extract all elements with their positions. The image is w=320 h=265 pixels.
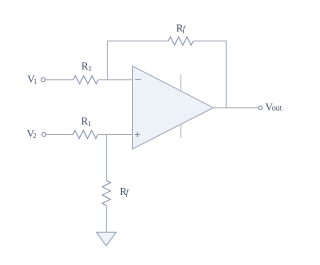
wire Rf to output branch — [193, 41, 226, 108]
op-amp minus sign — [135, 79, 141, 81]
op-amp positive supply pin — [180, 74, 182, 90]
svg-text:1: 1 — [34, 78, 38, 86]
wire op-amp output — [213, 107, 258, 109]
svg-text:2: 2 — [33, 132, 37, 140]
op-amp U1 body — [133, 66, 214, 149]
node V1 terminal circle — [41, 78, 45, 82]
wire node B down to Rf — [105, 135, 107, 181]
wire feedback tap up from node A — [107, 41, 168, 80]
op-amp negative supply pin — [180, 124, 182, 138]
wire Rf to ground — [105, 206, 107, 233]
svg-text:out: out — [272, 103, 283, 112]
resistor Rf (feedback) — [168, 37, 193, 45]
wire R1 to inverting input — [98, 79, 132, 81]
resistor R1 (top) — [73, 76, 98, 84]
node Vout terminal circle — [259, 106, 263, 110]
resistor Rf (to ground) — [102, 181, 110, 206]
svg-text:1: 1 — [88, 120, 92, 128]
op-amp plus sign — [135, 132, 140, 137]
node V2 terminal circle — [42, 133, 46, 137]
wire V1 to R1 — [45, 79, 73, 81]
wire V2 to R1 — [46, 134, 73, 136]
svg-text:1: 1 — [88, 65, 92, 73]
resistor R1 (bottom) — [73, 130, 98, 138]
ground — [96, 232, 116, 246]
wire R1 to non-inverting input — [98, 134, 133, 136]
